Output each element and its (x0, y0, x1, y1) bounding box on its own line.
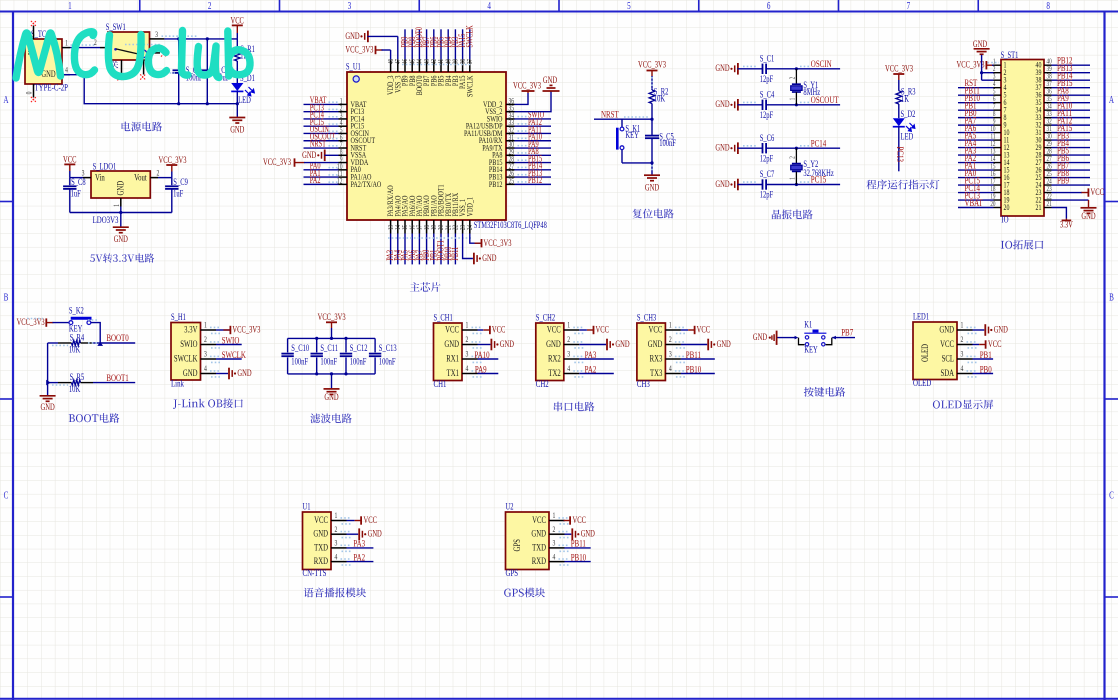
svg-text:GND: GND (302, 150, 316, 160)
node VBAT wire (304, 103, 339, 105)
capacitor S_C7 12pF (760, 169, 840, 200)
node PA3 wire (579, 358, 614, 360)
svg-text:PB11: PB11 (450, 247, 460, 261)
no-ERC mark TC1 pin9 (31, 21, 36, 26)
svg-text:SWIO: SWIO (222, 334, 240, 346)
node PB4 wire (1052, 147, 1091, 149)
junction (795, 103, 798, 106)
svg-text:LED: LED (901, 131, 914, 141)
svg-text:10K: 10K (69, 344, 80, 354)
node PB1 wire (958, 109, 994, 111)
svg-text:PB11: PB11 (571, 537, 586, 549)
capacitor C9 1uF (165, 177, 188, 213)
svg-text:S_CH1: S_CH1 (434, 312, 453, 322)
junction (344, 372, 347, 375)
title J-Link OB接口 (173, 398, 243, 408)
wire bottom rail power (62, 75, 237, 104)
junction (177, 102, 180, 105)
svg-text:S_C1: S_C1 (760, 53, 775, 63)
svg-text:GND: GND (1081, 211, 1095, 221)
node PA3 wire (958, 154, 994, 156)
node PB11 wire (454, 234, 456, 265)
header ST1 IO (990, 50, 1052, 225)
node PA1 wire (958, 169, 994, 171)
svg-text:GND: GND (115, 181, 125, 196)
ground GND U2 pin2 (565, 528, 596, 540)
svg-text:GND: GND (615, 339, 629, 349)
no-ERC mark TC1 pin0 (31, 97, 36, 102)
title 5V转3.3V电路 (90, 253, 154, 262)
svg-text:VCC_3V3: VCC_3V3 (484, 238, 512, 248)
svg-text:GND: GND (546, 339, 561, 349)
junction (236, 102, 239, 105)
ground GND H1 pin4 (216, 368, 252, 380)
switch SW1 (94, 22, 164, 74)
wire reset bottom (622, 162, 652, 164)
ground GND key (753, 331, 795, 345)
svg-text:1uF: 1uF (173, 188, 184, 198)
connector TC1 TYPE-C-2P (25, 26, 70, 98)
svg-text:RX1: RX1 (446, 353, 459, 363)
svg-text:3.3V: 3.3V (1060, 219, 1073, 229)
ground GND CH2 pin2 (579, 339, 629, 351)
resistor R4 10K (48, 332, 101, 354)
wire filter top rail (288, 337, 376, 339)
svg-text:GND: GND (645, 182, 659, 192)
svg-text:U1: U1 (303, 501, 311, 511)
svg-text:SWCLK: SWCLK (464, 75, 474, 97)
ground GND CH3 pin2 (681, 339, 731, 351)
svg-text:GND: GND (183, 368, 198, 378)
svg-text:KEY: KEY (804, 344, 818, 354)
mcu U1 STM32F103C8T6 (337, 58, 547, 233)
svg-text:GPS: GPS (512, 539, 522, 552)
power VCC_3V3 H1 pin1 (216, 324, 260, 334)
svg-text:1: 1 (553, 511, 556, 520)
svg-text:PB0: PB0 (980, 363, 992, 375)
svg-text:TX3: TX3 (650, 368, 662, 378)
svg-text:GND: GND (753, 332, 767, 342)
node BOOT0 wire (418, 29, 420, 59)
svg-text:2: 2 (789, 156, 797, 159)
svg-text:10K: 10K (69, 384, 80, 394)
node PB4 wire (447, 29, 449, 59)
svg-text:GND: GND (717, 339, 731, 349)
svg-text:GND: GND (715, 99, 729, 109)
module CH1 (434, 312, 483, 389)
svg-text:PA2: PA2 (585, 363, 597, 375)
node SWIO wire (216, 344, 242, 346)
wire LDO bottom rail (70, 212, 172, 214)
svg-text:S_C7: S_C7 (760, 169, 775, 179)
svg-text:S_CH2: S_CH2 (536, 312, 555, 322)
node PB15 wire (1052, 87, 1091, 89)
junction (206, 102, 209, 105)
module U1 CN-TTS (303, 501, 352, 578)
svg-text:VCC: VCC (230, 15, 243, 25)
display LED1 OLED (913, 311, 978, 388)
crystal Y1 8MHz (789, 69, 821, 105)
svg-text:S_C4: S_C4 (760, 89, 775, 99)
ground GND ST1 pin22 (1052, 200, 1097, 221)
svg-text:PA3: PA3 (585, 349, 597, 361)
node PA2 wire (958, 162, 994, 164)
wire GND rail BOOT (47, 343, 49, 395)
node PB1 wire (433, 234, 435, 265)
svg-text:100nF: 100nF (379, 357, 396, 367)
svg-text:OLED: OLED (920, 344, 930, 362)
node PA15 wire (1052, 132, 1091, 134)
node PB15 wire (515, 162, 552, 164)
node PC15 wire (304, 125, 339, 127)
svg-text:3: 3 (348, 0, 352, 11)
svg-text:RXD: RXD (314, 556, 328, 566)
node VBAT wire (958, 207, 994, 209)
svg-text:CH3: CH3 (637, 378, 650, 390)
junction (330, 372, 333, 375)
svg-text:8MHz: 8MHz (803, 87, 820, 97)
crystal Y2 32.768KHz (789, 148, 835, 184)
capacitor C3 10uF (201, 39, 230, 104)
svg-text:SDA: SDA (940, 368, 954, 378)
svg-text:S_SW1: S_SW1 (106, 22, 126, 32)
header H1 J-Link (171, 312, 221, 389)
ground GND crystal row 1 (715, 63, 762, 75)
title 主芯片 (410, 282, 441, 292)
node PB7 wire (426, 29, 428, 59)
svg-text:VCC: VCC (940, 339, 954, 349)
svg-text:S_LDO1: S_LDO1 (93, 161, 117, 171)
svg-text:LED1: LED1 (913, 311, 929, 321)
capacitor S_C6 12pF (760, 133, 840, 164)
svg-text:VCC: VCC (573, 515, 586, 525)
node PB7 wire (832, 337, 855, 339)
node PC14 wire (304, 118, 339, 120)
node PA0 wire (958, 177, 994, 179)
junction (119, 211, 122, 214)
resistor R2 10K (649, 86, 668, 119)
node SWCLK wire (216, 358, 242, 360)
node PA9 wire (478, 373, 499, 375)
node PA10 wire (478, 358, 499, 360)
svg-text:BOOT1: BOOT1 (106, 372, 128, 384)
svg-text:12pF: 12pF (760, 110, 774, 120)
module CH3 (637, 312, 686, 389)
regulator LDO1 LDO3V3 (82, 161, 160, 225)
capacitor S_C10 100nF (281, 338, 309, 374)
svg-text:VCC: VCC (547, 324, 561, 334)
junction (177, 37, 180, 40)
svg-text:IO: IO (1001, 213, 1008, 225)
switch SW1 pin name 关 (111, 61, 119, 68)
svg-text:GND: GND (531, 529, 546, 539)
node PA12 wire (1052, 124, 1091, 126)
svg-text:VCC: VCC (364, 515, 377, 525)
svg-text:3: 3 (669, 350, 672, 359)
power VCC CH2 pin1 (579, 324, 609, 334)
svg-text:VCC_3V3: VCC_3V3 (158, 155, 186, 165)
node PB10 wire (565, 561, 591, 563)
svg-text:STM32F103C8T6_LQFP48: STM32F103C8T6_LQFP48 (474, 220, 547, 230)
node PA3 wire (390, 234, 392, 265)
power VCC U1 pin1 (347, 515, 377, 525)
svg-text:100nF: 100nF (350, 357, 367, 367)
svg-text:2: 2 (961, 335, 964, 344)
node SWIO wire (515, 118, 552, 120)
svg-text:BOOT0: BOOT0 (106, 332, 128, 344)
svg-text:VCC: VCC (649, 324, 663, 334)
svg-text:4: 4 (204, 364, 207, 373)
svg-text:S_U1: S_U1 (346, 61, 361, 71)
svg-text:VCC_3V3: VCC_3V3 (513, 80, 541, 90)
svg-text:1: 1 (789, 98, 797, 101)
svg-text:GND: GND (939, 324, 954, 334)
node PA4 wire (958, 147, 994, 149)
ground GND crystal row 2 (715, 99, 762, 111)
svg-text:4: 4 (65, 67, 68, 75)
svg-text:0: 0 (26, 91, 34, 94)
svg-text:GND: GND (313, 529, 328, 539)
title 按键电路 (804, 387, 845, 397)
junction (97, 342, 103, 346)
svg-text:GND: GND (230, 124, 244, 134)
node PA15 wire (462, 29, 464, 59)
power VCC_3V3 VDD_2 pin36 (513, 80, 541, 104)
svg-text:GND: GND (237, 368, 251, 378)
no-ERC mark SW1 bottom pin A (117, 75, 122, 80)
svg-text:PA9: PA9 (475, 363, 487, 375)
module U2 GPS (506, 501, 570, 578)
LED D1 (231, 73, 255, 105)
svg-text:S_C9: S_C9 (173, 177, 188, 187)
svg-text:Vout: Vout (134, 172, 147, 182)
node PB11 wire (565, 547, 591, 549)
pushbutton K1 KEY (795, 319, 836, 354)
svg-text:S_R5: S_R5 (70, 372, 85, 382)
svg-text:1: 1 (335, 511, 338, 520)
node PA5 wire (404, 234, 406, 265)
power VCC LDO input (63, 154, 76, 177)
svg-text:K1: K1 (804, 319, 812, 329)
svg-text:PC13: PC13 (895, 147, 907, 162)
svg-text:7: 7 (907, 0, 911, 11)
wire filter bottom rail (288, 373, 376, 375)
svg-text:GND: GND (482, 253, 496, 263)
node PB3 wire (454, 29, 456, 59)
ground GND crystal row 3 (715, 142, 762, 154)
module CH2 (536, 312, 585, 389)
svg-text:Vin: Vin (95, 172, 105, 182)
node PB14 wire (515, 169, 552, 171)
svg-text:B: B (1109, 291, 1114, 303)
capacitor C8 1uF (63, 177, 86, 213)
node PA1 wire (304, 176, 339, 178)
svg-text:TX1: TX1 (447, 368, 459, 378)
svg-text:GND: GND (715, 179, 729, 189)
node PC13 wire (898, 143, 900, 171)
svg-text:3: 3 (335, 539, 338, 548)
svg-text:12pF: 12pF (760, 153, 774, 163)
svg-text:5: 5 (627, 0, 631, 11)
svg-text:C: C (4, 489, 9, 501)
junction (315, 337, 318, 340)
svg-text:VCC: VCC (314, 515, 328, 525)
svg-text:U2: U2 (506, 501, 514, 511)
svg-text:RX2: RX2 (548, 353, 561, 363)
svg-text:VCC_3V3: VCC_3V3 (263, 157, 291, 167)
node RST wire (958, 87, 994, 89)
svg-text:CH1: CH1 (434, 378, 447, 390)
svg-text:37: 37 (466, 59, 474, 64)
svg-text:VCC: VCC (532, 515, 546, 525)
svg-text:KEY: KEY (625, 130, 639, 140)
power VCC_3V3 LDO output (158, 155, 186, 178)
ground GND BOOT (47, 394, 49, 396)
power VCC_3V3 BOOT (17, 317, 69, 327)
svg-text:PB12: PB12 (528, 175, 542, 185)
svg-text:TX2: TX2 (548, 368, 560, 378)
svg-text:Link: Link (171, 377, 185, 389)
title OLED显示屏 (933, 400, 993, 410)
node PB12 wire (515, 183, 552, 185)
svg-text:GND: GND (715, 63, 729, 73)
LED D2 (893, 109, 916, 143)
svg-text:PA2: PA2 (310, 175, 321, 185)
svg-text:4: 4 (669, 364, 672, 373)
svg-text:PA2: PA2 (353, 551, 365, 563)
svg-text:12pF: 12pF (760, 74, 774, 84)
capacitor S_C4 12pF (760, 89, 840, 120)
node OSCOUT wire (304, 140, 339, 142)
capacitor C2 100nF (173, 39, 203, 104)
node PB13 wire (515, 176, 552, 178)
svg-text:2: 2 (335, 525, 338, 534)
svg-text:S_C11: S_C11 (320, 343, 338, 353)
svg-text:3: 3 (961, 350, 964, 359)
node PB11 wire (681, 358, 715, 360)
node PB10 wire (958, 102, 994, 104)
node PA7 wire (418, 234, 420, 265)
svg-text:VCC: VCC (697, 324, 710, 334)
node PB11 wire (958, 94, 994, 96)
node PA11 wire (515, 132, 552, 134)
ground GND CH1 pin2 (478, 339, 515, 351)
capacitor S_C13 100nF (369, 338, 397, 374)
svg-text:3: 3 (204, 350, 207, 359)
node PC13 wire (958, 199, 994, 201)
svg-text:GND: GND (324, 392, 338, 402)
svg-text:1: 1 (204, 321, 207, 330)
node PB0 wire (426, 234, 428, 265)
svg-text:S_C10: S_C10 (291, 343, 309, 353)
ground GND VSSA pin8 (302, 149, 338, 161)
wire GND stub (120, 207, 122, 213)
wire VCC rail top (164, 38, 237, 40)
pushbutton K2 KEY (69, 305, 92, 333)
title 滤波电路 (310, 413, 351, 423)
svg-text:B: B (4, 291, 9, 303)
svg-text:S_H1: S_H1 (171, 312, 186, 322)
svg-text:1: 1 (466, 321, 469, 330)
title 复位电路 (633, 209, 674, 219)
svg-text:A: A (1109, 94, 1115, 106)
capacitor S_C11 100nF (311, 338, 339, 374)
wire K2 to BOOT0 (91, 323, 100, 343)
ground GND U1 pin2 (347, 528, 382, 540)
svg-text:SWCLK: SWCLK (464, 25, 474, 48)
ground GND OLED pin1 (973, 324, 1009, 336)
power VCC_3V3 VDDA pin9 (263, 157, 339, 167)
ground GND VSS_2 pin35 (515, 75, 560, 112)
svg-text:NRST: NRST (601, 108, 619, 120)
node PA9 wire (1052, 102, 1091, 104)
svg-text:VCC_3V3: VCC_3V3 (885, 63, 913, 73)
node PB9 wire (404, 29, 406, 59)
node PB0 wire (973, 373, 994, 375)
svg-text:1: 1 (113, 204, 121, 207)
wire TC1 pin1 to SW1 (70, 47, 100, 49)
svg-text:100nF: 100nF (659, 138, 676, 148)
capacitor S_C1 12pF (760, 53, 840, 84)
node PC14 wire (958, 192, 994, 194)
ground GND LDO (113, 213, 129, 245)
wire K1 branch (621, 119, 623, 127)
svg-text:3: 3 (155, 30, 158, 39)
svg-text:2: 2 (466, 335, 469, 344)
svg-text:3.3V: 3.3V (184, 324, 197, 334)
no-ERC mark SW1 bottom pin B (140, 74, 145, 79)
svg-text:S_R4: S_R4 (70, 332, 85, 342)
svg-text:1uF: 1uF (71, 188, 82, 198)
power VCC_3V3 run LED (885, 63, 913, 90)
svg-text:1: 1 (669, 321, 672, 330)
svg-text:CN-TTS: CN-TTS (303, 567, 327, 579)
node PA8 wire (1052, 94, 1091, 96)
svg-text:GND: GND (114, 234, 128, 244)
svg-text:GND: GND (41, 69, 55, 79)
node PA9 wire (515, 147, 552, 149)
svg-text:S_K2: S_K2 (69, 305, 84, 315)
junction (795, 183, 798, 186)
node PB5 wire (1052, 154, 1091, 156)
node PB13 wire (1052, 72, 1091, 74)
svg-text:6: 6 (767, 0, 771, 11)
node PC15 wire (958, 184, 994, 186)
power VCC_3V3 reset (638, 59, 666, 90)
svg-text:OSCIN: OSCIN (811, 58, 832, 70)
svg-text:8: 8 (1046, 0, 1050, 11)
svg-text:GND: GND (715, 142, 729, 152)
svg-text:PB10: PB10 (571, 551, 586, 563)
svg-text:GND: GND (368, 528, 382, 538)
svg-text:2: 2 (789, 77, 797, 80)
svg-text:PA2/TX/AO: PA2/TX/AO (351, 179, 382, 189)
node PA6 wire (411, 234, 413, 265)
svg-text:4: 4 (335, 552, 338, 561)
svg-text:3: 3 (567, 350, 570, 359)
svg-text:21: 21 (1036, 202, 1042, 212)
junction (344, 337, 347, 340)
power VCC_3V3 VDD_1 pin24 (470, 234, 512, 249)
svg-text:S_C6: S_C6 (760, 133, 775, 143)
no-ERC mark SW1 unused pin (161, 51, 166, 56)
node PC13 wire (304, 111, 339, 113)
svg-text:TYPE-C-2P: TYPE-C-2P (35, 81, 69, 93)
svg-text:SWCLK: SWCLK (174, 353, 198, 363)
power VCC_3V3 filter (318, 312, 346, 339)
ground GND crystal row 4 (715, 179, 762, 191)
node PB8 wire (411, 29, 413, 59)
